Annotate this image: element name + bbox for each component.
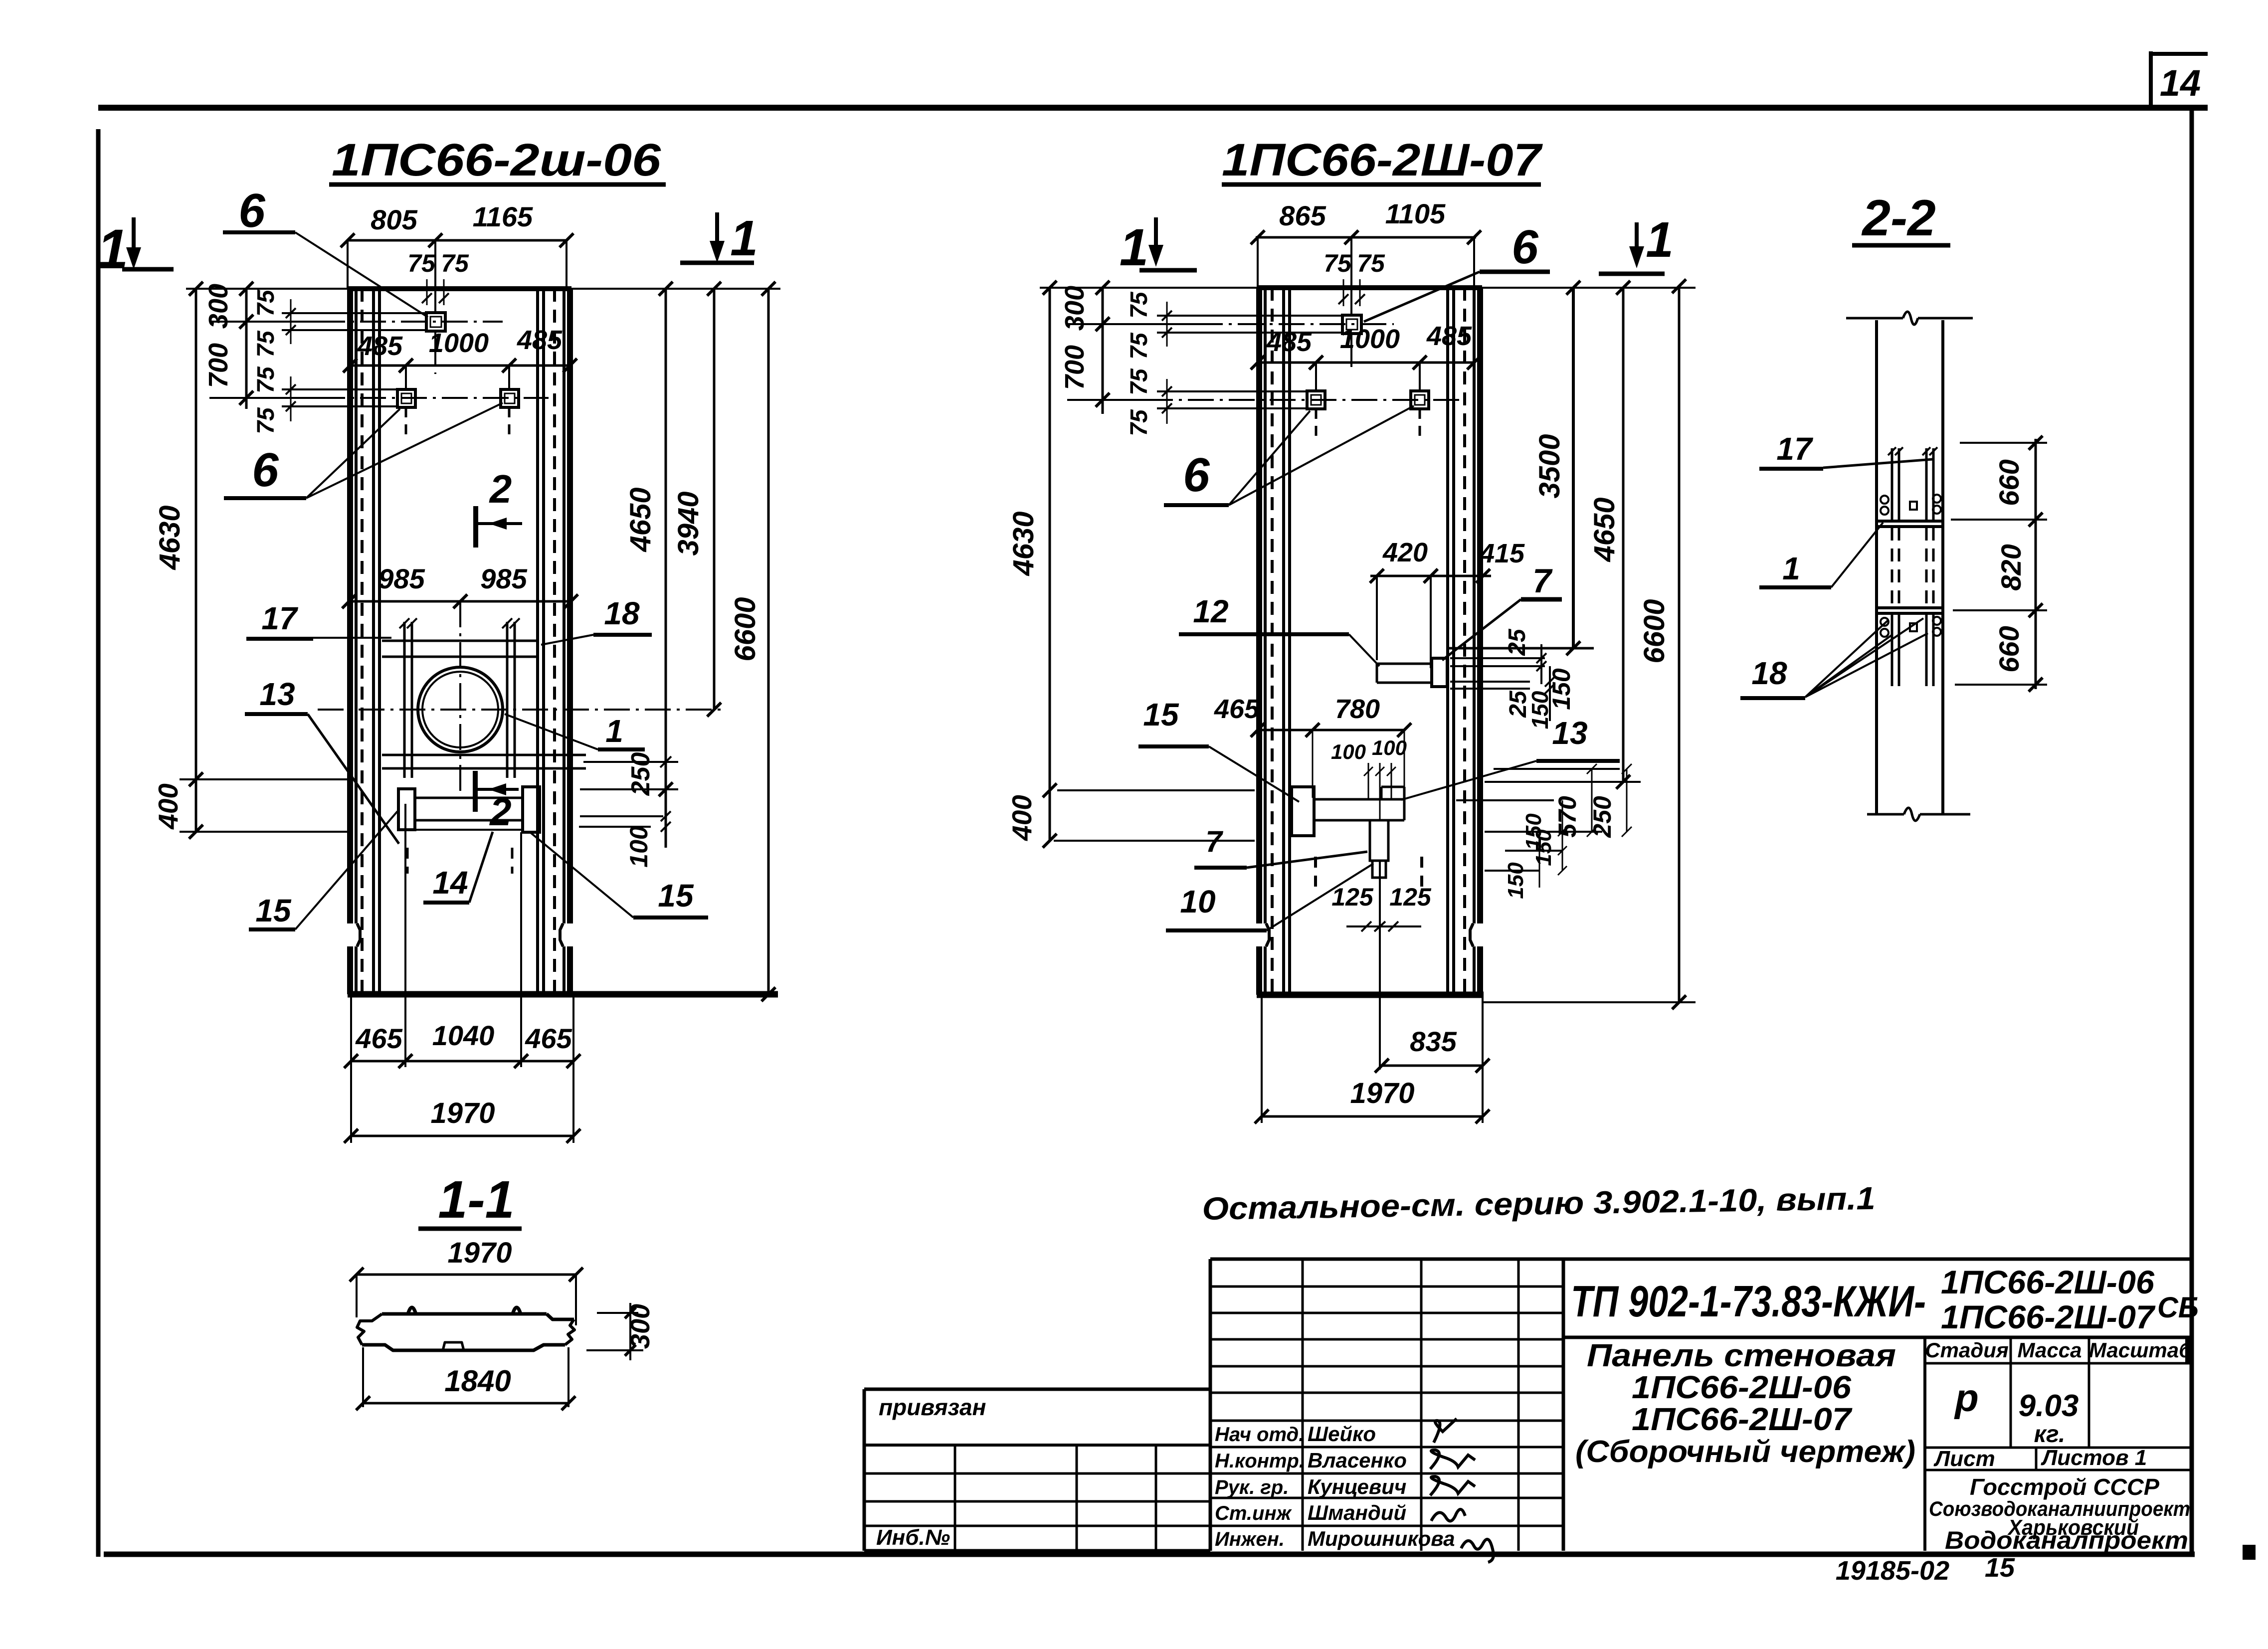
left panel anchor centerline top bbox=[434, 240, 436, 313]
svg-text:125: 125 bbox=[1331, 883, 1374, 911]
stamp central rows bbox=[1210, 1285, 1563, 1288]
svg-text:17: 17 bbox=[1776, 431, 1814, 467]
svg-text:125: 125 bbox=[1389, 883, 1432, 911]
svg-text:Нач отд.: Нач отд. bbox=[1215, 1424, 1304, 1446]
svg-text:75: 75 bbox=[407, 249, 436, 277]
right panel row 300 centerline bbox=[1067, 323, 1197, 325]
svg-text:4630: 4630 bbox=[1007, 511, 1040, 576]
svg-text:1ПС66-2Ш-07: 1ПС66-2Ш-07 bbox=[1941, 1298, 2156, 1335]
right panel row 700 extension pair bbox=[1157, 390, 1307, 392]
right panel left chain 4630/400 bbox=[1049, 288, 1051, 841]
svg-text:100: 100 bbox=[625, 826, 653, 868]
right edge notch bbox=[1470, 923, 1473, 946]
anchor stub lines bbox=[405, 366, 407, 389]
svg-text:415: 415 bbox=[1479, 539, 1525, 568]
svg-text:привязан: привязан bbox=[879, 1394, 986, 1420]
svg-text:75: 75 bbox=[253, 366, 279, 393]
svg-text:780: 780 bbox=[1335, 694, 1380, 724]
stamp central table outline bbox=[1209, 1259, 1212, 1551]
svg-text:(Сборочный чертеж): (Сборочный чертеж) bbox=[1575, 1435, 1915, 1469]
svg-text:Инб.№: Инб.№ bbox=[876, 1525, 950, 1550]
bolt centerline to 835 bbox=[1379, 861, 1381, 1070]
svg-text:485: 485 bbox=[1266, 327, 1312, 357]
section mark 2 lower bbox=[473, 771, 478, 812]
svg-text:6: 6 bbox=[252, 443, 279, 497]
svg-text:Ст.инж: Ст.инж bbox=[1215, 1502, 1293, 1524]
svg-text:ТП 902-1-73.83-КЖИ-: ТП 902-1-73.83-КЖИ- bbox=[1571, 1277, 1926, 1326]
section 2-2 bolts lower bbox=[1881, 618, 1889, 626]
stamp left table columns bbox=[954, 1445, 956, 1551]
right panel top dimension 865/1105 bbox=[1256, 236, 1476, 239]
right panel top edge bbox=[1257, 285, 1482, 290]
svg-text:1: 1 bbox=[1120, 218, 1148, 277]
right panel dims: 3500 bbox=[1572, 288, 1575, 648]
svg-text:4650: 4650 bbox=[1588, 497, 1621, 562]
svg-text:485: 485 bbox=[1426, 321, 1472, 351]
top extension to right dims bbox=[571, 288, 780, 290]
svg-text:15: 15 bbox=[1143, 697, 1179, 733]
svg-text:300: 300 bbox=[203, 284, 233, 329]
svg-text:465: 465 bbox=[355, 1023, 402, 1054]
svg-text:1: 1 bbox=[730, 210, 758, 266]
svg-text:Шмандий: Шмандий bbox=[1308, 1501, 1406, 1524]
row 700 centerline bbox=[209, 397, 319, 399]
svg-text:Лист: Лист bbox=[1933, 1447, 1995, 1471]
anchor loop mid-right right panel bbox=[1411, 391, 1429, 409]
frame top border line bbox=[98, 105, 2208, 111]
section 2-2 bottom break line bbox=[1867, 813, 1904, 816]
section 1-1 bottom profile bbox=[362, 1345, 565, 1350]
right panel dims: 6600 bbox=[1678, 286, 1681, 1002]
svg-text:1970: 1970 bbox=[430, 1097, 495, 1129]
left dimension chain 4630/400 bbox=[195, 289, 197, 832]
svg-text:Шейко: Шейко bbox=[1308, 1422, 1376, 1446]
svg-text:250: 250 bbox=[1588, 796, 1616, 838]
right panel bottom edge bbox=[1257, 992, 1484, 998]
svg-text:300: 300 bbox=[625, 1304, 655, 1349]
svg-text:75: 75 bbox=[1357, 249, 1385, 277]
left edge notch bbox=[1266, 923, 1269, 946]
svg-text:805: 805 bbox=[371, 204, 417, 235]
title underline right bbox=[1222, 183, 1541, 187]
svg-text:Масштаб: Масштаб bbox=[2089, 1338, 2192, 1362]
opening frame right verticals bbox=[506, 622, 509, 778]
svg-text:4630: 4630 bbox=[154, 505, 186, 570]
row 300 extension pair bbox=[282, 312, 426, 314]
bottom beam right block bbox=[523, 787, 540, 832]
svg-text:75: 75 bbox=[253, 407, 279, 434]
opening centerline vertical bbox=[459, 601, 461, 798]
section mark 2 upper bbox=[473, 506, 478, 548]
bolt axis lines to bottom dims bbox=[404, 804, 406, 1067]
section mark 1 top-right right panel bbox=[1635, 222, 1639, 262]
svg-text:75: 75 bbox=[253, 330, 279, 358]
ink blob bottom right bbox=[2243, 1545, 2256, 1560]
svg-text:250: 250 bbox=[626, 752, 655, 796]
frame left border line bbox=[96, 129, 101, 1557]
dimension 465/780 right panel bbox=[1258, 729, 1404, 732]
svg-text:3500: 3500 bbox=[1533, 434, 1566, 498]
svg-text:420: 420 bbox=[1382, 538, 1428, 567]
dimension 1970 bottom left panel bbox=[351, 1135, 573, 1137]
section 2-2 title underline bbox=[1852, 243, 1950, 248]
opening centerline horizontal bbox=[318, 709, 721, 711]
section 2-2 wall lines bbox=[1875, 320, 1878, 814]
svg-text:17: 17 bbox=[261, 600, 299, 636]
left panel top dimension line 805/1165 bbox=[348, 239, 567, 242]
svg-text:75: 75 bbox=[1126, 409, 1152, 436]
bracket 12 beam bbox=[1377, 663, 1432, 665]
row 300 centerline bbox=[209, 321, 319, 323]
svg-text:10: 10 bbox=[1180, 884, 1215, 919]
svg-text:570: 570 bbox=[1553, 796, 1581, 838]
row 700 extension pair bbox=[282, 388, 397, 390]
stamp left table outline bbox=[863, 1389, 866, 1551]
svg-text:100: 100 bbox=[1372, 736, 1407, 759]
svg-text:кг.: кг. bbox=[2034, 1421, 2066, 1448]
section mark 1 top-right of left panel bbox=[715, 212, 719, 256]
left panel bottom edge bbox=[348, 991, 778, 998]
svg-text:6600: 6600 bbox=[729, 597, 761, 661]
opening frame top bars bbox=[382, 640, 537, 642]
svg-text:1040: 1040 bbox=[432, 1020, 495, 1051]
opening frame bottom bars bbox=[382, 754, 586, 756]
stamp central columns bbox=[1302, 1259, 1304, 1551]
svg-text:1: 1 bbox=[605, 713, 623, 749]
dimension 420/415 bbox=[1370, 575, 1491, 577]
svg-text:75: 75 bbox=[1126, 332, 1152, 360]
svg-text:6600: 6600 bbox=[1638, 599, 1671, 663]
svg-text:150: 150 bbox=[1504, 862, 1528, 899]
svg-text:1ПС66-2Ш-07: 1ПС66-2Ш-07 bbox=[1632, 1401, 1853, 1437]
svg-text:1165: 1165 bbox=[473, 201, 533, 232]
right panel left chain 300/700 bbox=[1102, 288, 1104, 414]
anchor loop mid-left right panel bbox=[1307, 391, 1325, 409]
left panel top edge bbox=[348, 286, 571, 291]
bottom beam bars bbox=[415, 797, 523, 799]
svg-text:1: 1 bbox=[1782, 550, 1800, 586]
svg-text:75: 75 bbox=[1126, 291, 1152, 319]
svg-text:Инжен.: Инжен. bbox=[1215, 1528, 1285, 1550]
svg-text:1970: 1970 bbox=[447, 1237, 512, 1269]
hanging bolt 10 bbox=[1370, 820, 1388, 861]
svg-text:6: 6 bbox=[1183, 448, 1210, 502]
svg-text:660: 660 bbox=[1993, 626, 2025, 672]
svg-text:Масса: Масса bbox=[2018, 1338, 2082, 1362]
svg-text:75: 75 bbox=[253, 289, 279, 317]
svg-text:25: 25 bbox=[1504, 628, 1530, 656]
svg-text:400: 400 bbox=[1006, 795, 1037, 841]
dimension 485 1000 485 bbox=[350, 365, 570, 367]
right dims of left panel: 4650 bbox=[665, 289, 667, 848]
right panel top extension line bbox=[1482, 287, 1696, 289]
svg-text:1: 1 bbox=[1646, 212, 1674, 268]
right side small dims 570/250/150 bbox=[1494, 768, 1620, 770]
svg-text:Госстрой СССР: Госстрой СССР bbox=[1970, 1474, 2159, 1500]
short dashed centerlines lower bbox=[406, 848, 409, 874]
svg-text:2: 2 bbox=[489, 790, 511, 834]
svg-text:14: 14 bbox=[432, 865, 468, 901]
svg-text:865: 865 bbox=[1279, 200, 1326, 231]
svg-text:150: 150 bbox=[1531, 829, 1556, 866]
svg-text:12: 12 bbox=[1193, 593, 1228, 629]
svg-text:465: 465 bbox=[1214, 694, 1260, 724]
section 2-2 dims 660/820/660 bbox=[2035, 439, 2037, 689]
note text bbox=[1202, 1180, 1876, 1227]
svg-text:7: 7 bbox=[1205, 825, 1223, 858]
svg-text:1000: 1000 bbox=[429, 328, 489, 358]
svg-text:75: 75 bbox=[1323, 249, 1352, 277]
anchor loop top right panel bbox=[1342, 315, 1361, 334]
right panel row 700 centerline bbox=[1067, 399, 1147, 401]
dimension 985 985 bbox=[349, 600, 571, 603]
svg-text:3940: 3940 bbox=[672, 491, 705, 555]
svg-text:4650: 4650 bbox=[624, 487, 657, 552]
dimension 835 bbox=[1382, 1065, 1483, 1067]
svg-text:13: 13 bbox=[1552, 715, 1587, 751]
svg-text:75: 75 bbox=[441, 249, 469, 277]
section 2-2 insert bars bbox=[1891, 448, 1893, 520]
svg-text:2: 2 bbox=[489, 467, 512, 511]
svg-text:Мирошникова: Мирошникова bbox=[1308, 1527, 1455, 1550]
dashed stubs below beam right panel bbox=[1314, 857, 1317, 887]
svg-text:1840: 1840 bbox=[444, 1364, 511, 1398]
svg-text:СБ: СБ bbox=[2157, 1291, 2199, 1324]
svg-text:Стадия: Стадия bbox=[1925, 1338, 2008, 1362]
svg-text:465: 465 bbox=[525, 1023, 572, 1054]
svg-text:1970: 1970 bbox=[1350, 1077, 1414, 1109]
beam 15 left block bbox=[1292, 787, 1314, 836]
svg-text:Н.контр.: Н.контр. bbox=[1215, 1450, 1305, 1472]
stamp stadia massa masshtab header bbox=[1925, 1362, 2192, 1365]
svg-text:19185-02: 19185-02 bbox=[1836, 1556, 1949, 1586]
right panel anchor centerline top bbox=[1350, 237, 1352, 315]
svg-text:1ПС66-2Ш-06: 1ПС66-2Ш-06 bbox=[1632, 1369, 1851, 1405]
section 2-2 top break line bbox=[1846, 317, 1903, 320]
section 1-1 dim 300 bbox=[597, 1312, 638, 1314]
extension lines 250/100 bbox=[583, 761, 678, 763]
svg-text:820: 820 bbox=[1995, 544, 2027, 590]
right panel dims: 4650 bbox=[1622, 288, 1625, 782]
anchor stubs right panel bbox=[1315, 363, 1317, 391]
anchor loop 6 mid-right bbox=[501, 389, 519, 407]
svg-text:18: 18 bbox=[604, 595, 640, 631]
svg-text:Власенко: Власенко bbox=[1308, 1449, 1407, 1472]
svg-text:985: 985 bbox=[480, 563, 527, 594]
dimension 1970 bottom right panel bbox=[1262, 1115, 1483, 1118]
page number box bbox=[2149, 51, 2153, 106]
svg-text:р: р bbox=[1954, 1376, 1979, 1420]
section 2-2 top cross bar bbox=[1878, 520, 1943, 523]
right panel outline verticals bbox=[1256, 288, 1262, 923]
section 2-2 bolts upper bbox=[1881, 496, 1889, 504]
beam 15 step bbox=[1381, 786, 1404, 788]
section 2-2 bottom cross bar bbox=[1878, 606, 1943, 609]
anchor loop 6 mid-left bbox=[397, 389, 415, 407]
svg-text:6: 6 bbox=[1512, 220, 1538, 274]
svg-text:485: 485 bbox=[357, 331, 403, 361]
svg-text:Панель стеновая: Панель стеновая bbox=[1587, 1337, 1896, 1373]
frame bottom border line bbox=[104, 1552, 2195, 1557]
svg-text:18: 18 bbox=[1751, 655, 1787, 691]
bottom extension to 6600 dim bbox=[1484, 1001, 1696, 1003]
frame right border line bbox=[2190, 111, 2194, 1552]
svg-text:15: 15 bbox=[658, 878, 694, 914]
svg-text:700: 700 bbox=[203, 343, 233, 388]
svg-text:985: 985 bbox=[378, 563, 425, 594]
svg-text:9.03: 9.03 bbox=[2019, 1389, 2079, 1423]
right dims of left panel: 3940 bbox=[713, 289, 716, 710]
opening circle bbox=[418, 667, 503, 752]
stamp list row bbox=[1925, 1447, 2192, 1449]
svg-text:1ПС66-2ш-06: 1ПС66-2ш-06 bbox=[332, 135, 661, 185]
svg-text:15: 15 bbox=[1985, 1553, 2015, 1583]
signature squiggles bbox=[1434, 1419, 1457, 1443]
section 1-1 right end zigzag bbox=[565, 1319, 574, 1345]
svg-text:700: 700 bbox=[1060, 345, 1090, 390]
left edge notch bbox=[357, 923, 360, 946]
svg-text:400: 400 bbox=[153, 783, 184, 830]
left dimension chain 300/700 bbox=[245, 289, 248, 409]
svg-text:100: 100 bbox=[1331, 740, 1366, 763]
left panel outline verticals bbox=[347, 289, 353, 923]
svg-text:Кунцевич: Кунцевич bbox=[1308, 1475, 1406, 1498]
title underline left bbox=[329, 183, 666, 187]
right panel row 300 extension pair bbox=[1157, 315, 1342, 317]
section 1-1 top profile bbox=[382, 1312, 547, 1316]
svg-text:2-2: 2-2 bbox=[1861, 189, 1935, 246]
svg-text:1ПС66-2Ш-06: 1ПС66-2Ш-06 bbox=[1941, 1264, 2155, 1300]
svg-text:660: 660 bbox=[1993, 459, 2025, 506]
section 1-1 left end zigzag bbox=[357, 1314, 382, 1345]
svg-text:835: 835 bbox=[1410, 1026, 1457, 1057]
svg-text:1ПС66-2Ш-07: 1ПС66-2Ш-07 bbox=[1222, 135, 1543, 185]
svg-text:1-1: 1-1 bbox=[438, 1170, 514, 1229]
anchor loop 6 top bbox=[426, 313, 445, 331]
small dims 25/150 near bracket bbox=[1450, 657, 1545, 659]
svg-text:1000: 1000 bbox=[1340, 324, 1400, 354]
svg-text:Рук. гр.: Рук. гр. bbox=[1215, 1476, 1289, 1498]
svg-text:6: 6 bbox=[238, 184, 265, 237]
bracket 12 end plate bbox=[1432, 658, 1447, 687]
svg-text:150: 150 bbox=[1527, 691, 1553, 729]
right dims of left panel: 6600 bbox=[767, 289, 770, 994]
svg-text:75: 75 bbox=[1126, 368, 1152, 395]
right panel dimension 485 1000 485 bbox=[1258, 362, 1474, 364]
svg-text:7: 7 bbox=[1532, 562, 1553, 600]
stamp name box bbox=[1923, 1337, 1926, 1551]
svg-text:14: 14 bbox=[2160, 62, 2201, 104]
svg-text:1105: 1105 bbox=[1385, 198, 1446, 229]
opening frame left verticals bbox=[403, 622, 406, 778]
right edge notch bbox=[560, 923, 563, 946]
svg-text:13: 13 bbox=[259, 676, 295, 712]
ink blob near masshtab bbox=[2185, 1338, 2193, 1364]
bottom beam left block bbox=[398, 789, 415, 830]
svg-text:Водоканалпроект: Водоканалпроект bbox=[1945, 1526, 2188, 1554]
section 1-1 title underline bbox=[418, 1227, 522, 1231]
svg-text:300: 300 bbox=[1060, 286, 1090, 331]
svg-text:15: 15 bbox=[255, 893, 292, 928]
beam 15 body bbox=[1314, 798, 1404, 801]
svg-text:Листов 1: Листов 1 bbox=[2041, 1446, 2147, 1470]
dimension 465 1040 465 bbox=[351, 1060, 573, 1063]
section 1-1 middle tab bbox=[443, 1342, 464, 1350]
stamp right part top box bbox=[1563, 1258, 2192, 1261]
section 1-1 dim 1840 bbox=[362, 1347, 364, 1407]
svg-text:485: 485 bbox=[517, 325, 563, 355]
